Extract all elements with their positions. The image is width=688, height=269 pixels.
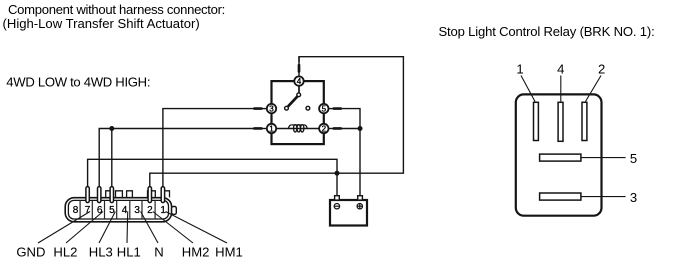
relay slot pin 4 xyxy=(558,102,563,141)
relay pin 3 terminal stub xyxy=(253,108,266,110)
wire: connector pin6 to relay pin1 (HL net) xyxy=(99,129,253,189)
connector latch bump 5 xyxy=(161,191,169,198)
relay slot pin 5 xyxy=(540,154,581,161)
relay pin circle 5 xyxy=(319,104,328,113)
svg-text:HM2: HM2 xyxy=(182,245,210,260)
svg-text:(High-Low Transfer Shift Actua: (High-Low Transfer Shift Actuator) xyxy=(3,16,200,31)
wire: battery plus to relay pin5 xyxy=(342,109,360,197)
svg-text:4: 4 xyxy=(557,61,564,76)
connector pin terminal 1 xyxy=(161,187,164,203)
battery minus post xyxy=(335,196,340,200)
svg-text:3: 3 xyxy=(269,105,274,114)
leader line HM2 xyxy=(153,212,193,244)
svg-text:HL1: HL1 xyxy=(117,245,141,260)
svg-text:HL3: HL3 xyxy=(89,245,113,260)
svg-text:1: 1 xyxy=(269,125,274,134)
svg-text:4: 4 xyxy=(122,205,128,216)
wire: connector pin5 vertical xyxy=(111,129,113,189)
connector inner shell xyxy=(68,200,168,219)
relay slot pin 3 xyxy=(540,193,581,200)
svg-text:GND: GND xyxy=(16,245,45,260)
relay pin 1 terminal stub xyxy=(253,128,266,130)
connector side tab xyxy=(172,207,177,215)
connector pin terminal 6 xyxy=(98,187,101,203)
leader line HM1 xyxy=(166,212,228,244)
relay switch armature from pin4 xyxy=(298,86,300,93)
svg-text:8: 8 xyxy=(73,205,79,216)
leader line N xyxy=(141,212,158,244)
svg-text:N: N xyxy=(154,245,163,260)
svg-text:HL2: HL2 xyxy=(53,245,77,260)
connector latch bump 2 xyxy=(116,191,123,198)
battery plus post xyxy=(358,196,363,200)
junction dot battery minus / HM2 xyxy=(335,171,340,176)
connector pin terminal 5 xyxy=(110,187,113,203)
svg-text:2: 2 xyxy=(322,125,327,134)
relay pin circle 3 xyxy=(267,104,276,113)
relay pin circle 2 xyxy=(319,124,328,133)
leader line pin 3 xyxy=(581,196,626,198)
relay slot pin 1 xyxy=(534,102,539,140)
svg-text:3: 3 xyxy=(630,190,637,205)
connector pin terminal 7 xyxy=(86,187,89,203)
leader line pin 2 xyxy=(586,76,602,102)
connector latch bump 3 xyxy=(127,191,133,198)
junction dot pin5/pin6 xyxy=(109,126,114,131)
junction dot battery plus / relay pin2 xyxy=(358,126,363,131)
relay slot pin 2 xyxy=(582,102,587,140)
svg-text:4WD LOW to 4WD HIGH:: 4WD LOW to 4WD HIGH: xyxy=(6,75,150,90)
relay pin circle 1 xyxy=(267,124,276,133)
relay switch fixed contact (pin3 side) xyxy=(285,106,289,110)
relay switch open contact (pin5 side) xyxy=(306,106,310,110)
battery plus symbol xyxy=(357,204,362,209)
relay coil L1 wire pin1 to pin2 xyxy=(272,128,324,130)
svg-text:Component without harness conn: Component without harness connector: xyxy=(8,2,225,17)
leader line pin 4 xyxy=(560,76,562,102)
wire: relay pin2 to battery plus vertical xyxy=(342,128,360,130)
leader line pin 5 xyxy=(581,157,626,159)
relay pin 4 terminal stub xyxy=(298,57,300,77)
wire: connector pin1 to relay pin3 (HM1 net) xyxy=(163,109,253,188)
svg-text:5: 5 xyxy=(322,105,327,114)
wire: connector pin2 HM2 to relay pin4 loop xyxy=(150,57,404,188)
relay pin 2 terminal stub xyxy=(329,128,343,130)
relay pin circle 4 xyxy=(294,76,303,85)
svg-text:5: 5 xyxy=(630,151,637,166)
connector cell dividers xyxy=(80,200,155,219)
connector outer shell xyxy=(65,198,171,222)
relay pin 5 terminal stub xyxy=(329,108,343,110)
relay coil L1 loops xyxy=(289,125,308,132)
leader line HL1 xyxy=(126,212,129,244)
connector latch bump 1 xyxy=(106,191,111,198)
svg-text:4: 4 xyxy=(297,77,302,86)
leader line HL2 xyxy=(66,212,103,244)
stop light relay body xyxy=(516,94,602,215)
relay U1 box xyxy=(272,81,324,144)
svg-text:HM1: HM1 xyxy=(215,245,243,260)
svg-text:3: 3 xyxy=(134,205,140,216)
battery minus symbol xyxy=(334,204,339,209)
svg-text:2: 2 xyxy=(598,61,605,76)
svg-text:1: 1 xyxy=(160,205,166,216)
wire: connector pin7 GND to battery minus xyxy=(88,159,337,196)
connector latch bump 4 xyxy=(148,191,156,198)
leader line pin 1 xyxy=(521,76,535,102)
svg-text:Stop Light Control Relay (BRK: Stop Light Control Relay (BRK NO. 1): xyxy=(439,24,655,39)
svg-text:2: 2 xyxy=(147,205,153,216)
svg-text:1: 1 xyxy=(516,61,523,76)
leader line GND xyxy=(38,212,90,244)
leader line HL3 xyxy=(99,212,115,244)
connector pin terminal 2 xyxy=(148,187,151,203)
battery BAT box xyxy=(330,200,367,226)
